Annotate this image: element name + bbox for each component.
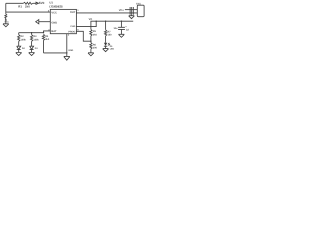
ground (R6): [88, 53, 94, 56]
svg-text:R1: R1: [18, 5, 22, 9]
wire PROG: [76, 31, 91, 41]
svg-text:CHG: CHG: [70, 25, 75, 28]
svg-text:LTC4054ES5: LTC4054ES5: [49, 5, 63, 9]
svg-text:100k: 100k: [33, 38, 39, 41]
svg-text:GND: GND: [68, 49, 73, 52]
svg-text:VO: VO: [89, 18, 93, 21]
LED D1: [105, 36, 107, 43]
wire R4 down: [43, 40, 45, 53]
svg-text:2k0: 2k0: [93, 33, 98, 36]
wire VCC rail to IC: [6, 11, 51, 13]
ground (D1): [103, 49, 109, 52]
LED D1 arrows: [108, 43, 110, 46]
wire BAT: [44, 31, 51, 33]
wire VCC vertical drop: [5, 3, 7, 12]
node GND junction: [66, 52, 67, 53]
node C2 tap: [121, 21, 122, 22]
resistor R1: [23, 2, 32, 4]
capacitor C2: [118, 21, 125, 34]
svg-text:OUT: OUT: [70, 11, 76, 14]
node BAT rail junction: [43, 32, 44, 33]
svg-text:2k0: 2k0: [45, 38, 50, 41]
ground (D3): [29, 53, 35, 56]
node R7 tap: [105, 21, 106, 22]
ground (C1): [3, 24, 9, 27]
wire 5V input top rail: [6, 2, 24, 4]
ground (C2): [119, 34, 125, 37]
wire GND pin to flag: [39, 21, 51, 23]
net flag 5V0: [36, 2, 39, 4]
svg-text:LED: LED: [110, 48, 115, 51]
wire R6 down: [90, 49, 92, 53]
wire OUT rail: [76, 12, 137, 14]
svg-text:5V0: 5V0: [39, 1, 45, 5]
wire IC GND stub: [66, 34, 68, 57]
svg-text:CN1: CN1: [136, 3, 141, 6]
resistor R2: [18, 33, 20, 35]
node CHRG rail2: [96, 21, 97, 22]
LED D2: [17, 41, 21, 52]
svg-text:2k0: 2k0: [25, 5, 30, 9]
resistor R3: [31, 33, 33, 35]
wire left rail: [19, 32, 44, 34]
resistor R4: [42, 34, 44, 40]
node PROG: [90, 41, 91, 42]
resistor R7: [105, 21, 107, 30]
svg-text:10u: 10u: [114, 27, 119, 30]
wire bottom rail: [44, 52, 67, 54]
node R3 tap: [31, 32, 32, 33]
wire rail2 VO: [91, 21, 133, 29]
LED D3: [30, 41, 34, 52]
svg-text:PROG: PROG: [68, 31, 75, 34]
svg-text:200: 200: [93, 47, 98, 50]
svg-text:100k: 100k: [21, 38, 27, 41]
ground (D2): [16, 53, 22, 56]
connector CN1 box: [137, 5, 144, 17]
resistor R6: [90, 43, 92, 50]
wire CHRG: [76, 21, 96, 26]
svg-text:BAT: BAT: [51, 30, 57, 33]
svg-text:1k0: 1k0: [108, 34, 113, 37]
wire VO+ to connector: [125, 9, 137, 11]
wire R5 to PROG node: [90, 36, 92, 43]
net flag GND arrow: [36, 20, 39, 24]
svg-text:VCC: VCC: [51, 11, 57, 14]
ground (center): [64, 56, 70, 60]
wire R1 to flag: [33, 2, 36, 4]
IC U1 box: [50, 9, 76, 33]
connector pin bars: [130, 7, 133, 15]
svg-text:VO+: VO+: [119, 9, 125, 12]
ground (connector): [131, 14, 133, 17]
resistor R8 input bleed: [5, 12, 7, 14]
svg-text:GND: GND: [51, 22, 57, 25]
resistor R5: [90, 29, 92, 36]
